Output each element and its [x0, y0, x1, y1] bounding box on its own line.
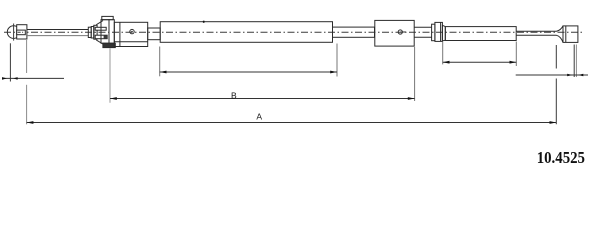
clip arm lower dark tip	[104, 35, 108, 38]
end fitting inner line	[565, 26, 567, 43]
eyelet body rectangle	[17, 25, 27, 39]
dim: right small dimension line	[516, 74, 588, 76]
eyelet slot centerline dash	[18, 31, 25, 33]
thin tube after conduit	[333, 27, 375, 37]
bracket plate	[101, 20, 109, 44]
outer conduit (sheath)	[160, 22, 332, 43]
adjuster housing rectangle	[114, 22, 147, 46]
dim: right small extension pair	[573, 45, 575, 78]
collar between housing and conduit	[148, 28, 161, 40]
thin cable end section	[516, 31, 556, 35]
barrel body	[435, 22, 443, 41]
bracket right band	[109, 20, 114, 44]
dim: conduit length dimension line	[160, 71, 337, 73]
inner rod (between eyelet and adjuster)	[27, 29, 88, 31]
clip arm lower	[95, 35, 107, 39]
dim: right tube left arrow	[443, 61, 450, 64]
dim B: extension left	[109, 48, 111, 103]
dim: left small arrow right-pointing	[2, 77, 7, 80]
housing inner horizontal line	[114, 41, 147, 43]
end fitting cylinder	[563, 26, 578, 43]
housing hole center dot	[131, 31, 133, 33]
second housing hole tick	[400, 31, 406, 33]
dim B: extension right	[414, 47, 416, 101]
dim: right small arrow left-pointing	[578, 74, 583, 77]
barrel ring 1	[432, 24, 435, 41]
conduit marker tick	[203, 21, 205, 23]
spring cone lower diagonal	[96, 40, 104, 45]
eyelet slot	[17, 30, 26, 35]
dim A: left arrow	[27, 121, 34, 124]
dim A: left extension line lower segment	[26, 85, 28, 125]
dim: conduit length extension left	[159, 47, 161, 77]
dim: right small arrow right-pointing	[567, 74, 572, 77]
dim: right tube extension left	[442, 42, 444, 64]
washer stack on rod	[88, 27, 91, 37]
right tube	[445, 27, 516, 41]
second housing hole	[398, 30, 402, 34]
barrel end cap	[442, 25, 445, 41]
second housing rectangle	[375, 20, 414, 46]
svg-text:10.4525: 10.4525	[537, 148, 585, 167]
housing inner vertical line	[119, 22, 121, 46]
spring cone upper diagonal	[96, 21, 103, 25]
dim: right tube dimension line	[443, 61, 517, 63]
dim A: right arrow	[550, 121, 557, 124]
dim B: dimension line	[110, 98, 415, 100]
bracket top cap	[102, 16, 113, 19]
dim: conduit left arrow	[160, 71, 167, 74]
dim: left small dimension extension line	[9, 43, 11, 81]
dim A: right extension line	[555, 45, 557, 124]
bracket foot (dark)	[103, 43, 115, 47]
dim A: left extension line upper segment	[26, 40, 28, 73]
barrel inner line	[440, 22, 442, 41]
end fitting cone	[557, 26, 564, 43]
clip arm upper	[95, 27, 106, 30]
dim: left small dimension line	[2, 77, 64, 79]
dim: right tube right arrow	[510, 61, 517, 64]
eyelet circle (left clevis end)	[7, 26, 20, 39]
eyelet vertical center tick	[13, 24, 15, 41]
dim: right tube extension right	[515, 42, 517, 67]
dim B: left arrow	[110, 97, 117, 100]
dim: left small arrow left-pointing	[13, 77, 17, 80]
centerline (dash-dot axis of cable)	[4, 31, 583, 33]
housing hole circle	[130, 29, 134, 33]
dim: conduit right arrow	[330, 71, 337, 74]
svg-text:A: A	[256, 111, 262, 121]
rod after second housing	[414, 27, 431, 37]
svg-text:B: B	[231, 90, 237, 100]
dim: conduit length extension right	[336, 44, 338, 77]
dim A: dimension line	[27, 122, 557, 124]
dim B: right arrow	[408, 97, 415, 100]
